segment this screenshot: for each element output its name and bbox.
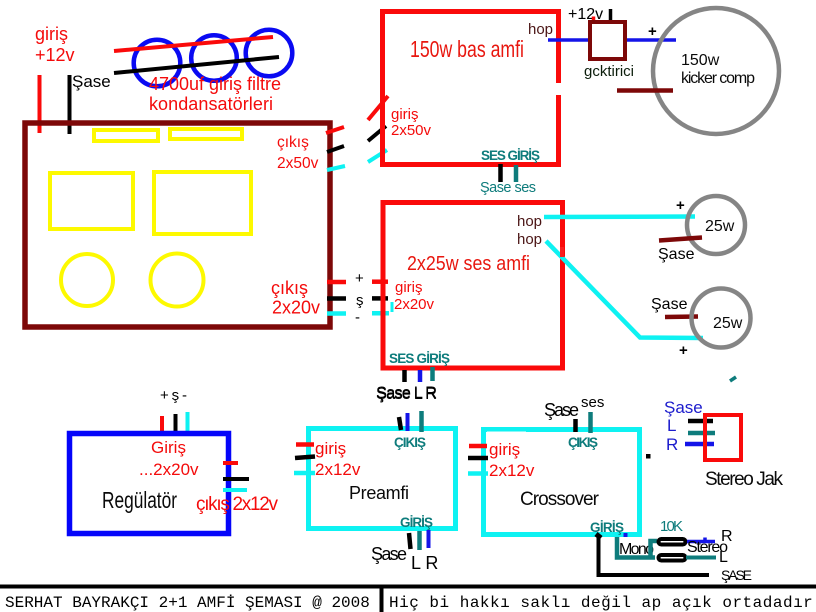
svg-text:150w bas amfi: 150w bas amfi <box>410 36 524 62</box>
svg-text:giriş: giriş <box>395 279 423 296</box>
wire reg in + (red) <box>160 416 164 435</box>
svg-text:Şase: Şase <box>664 398 703 417</box>
node blue dot <box>624 533 628 537</box>
svg-text:giriş: giriş <box>35 24 68 44</box>
wire teal tick below SPK3 <box>730 377 736 381</box>
svg-text:Şase ses: Şase ses <box>480 180 536 196</box>
wire ses şase stub (black) <box>498 164 503 182</box>
svg-text:2x25w ses amfi: 2x25w ses amfi <box>407 253 530 275</box>
gap in right edge of U1 <box>555 83 563 95</box>
svg-text:GİRİŞ: GİRİŞ <box>590 520 624 535</box>
svg-text:25w: 25w <box>705 218 735 235</box>
connector box Stereo Jak <box>705 415 741 460</box>
wire giriş tick (black) <box>596 534 601 538</box>
wire preamp in şase (black) <box>409 533 411 549</box>
svg-text:Giriş: Giriş <box>151 438 186 457</box>
wire R stub under U2 (teal) <box>430 367 435 381</box>
resistor R2 10K <box>659 555 686 561</box>
wire cyan tick by 2x20v <box>391 302 394 312</box>
wire R2 to L jack (teal) <box>686 556 716 560</box>
wire 20v- stub at PSU (cyan) <box>327 311 346 316</box>
transformer winding block 2 (yellow) <box>170 129 242 139</box>
speaker SPK2 25w <box>687 196 745 254</box>
toroid T1 (yellow) <box>61 254 113 306</box>
wire crossover out ses (teal) <box>588 412 593 433</box>
svg-text:ş: ş <box>356 292 364 309</box>
svg-text:R: R <box>721 528 733 545</box>
svg-text:Preamfi: Preamfi <box>349 483 409 503</box>
wire şase stub under U2 (black) <box>402 370 407 382</box>
wire 20v ş stub at ses amp (black) <box>372 296 388 301</box>
svg-text:SES GİRİŞ: SES GİRİŞ <box>481 148 540 163</box>
wire SPK2 şase (maroon) <box>659 238 702 241</box>
svg-text:Şase: Şase <box>651 296 688 313</box>
wire reg in ş (black) <box>174 414 178 436</box>
svg-text:kicker comp: kicker comp <box>681 70 755 87</box>
wire reg out + (red) <box>223 461 238 465</box>
wire capacitor + bus (red) <box>114 37 273 51</box>
footer divider <box>380 586 384 612</box>
wire reg in - (cyan) <box>186 412 190 435</box>
resistor R1 10K <box>659 539 686 545</box>
svg-text:2x20v: 2x20v <box>394 296 435 313</box>
transformer winding block 1 (yellow) <box>94 130 158 141</box>
preamp box Preamfi <box>309 429 456 529</box>
svg-text:Şase: Şase <box>658 246 695 263</box>
transformer core 2 (yellow) <box>154 172 251 234</box>
wire hop to gcktirici (blue) <box>548 38 676 42</box>
svg-text:ÇIKIŞ: ÇIKIŞ <box>394 435 426 450</box>
power supply box PSU <box>25 123 330 327</box>
svg-text:hop: hop <box>528 21 553 38</box>
wire 20v ş stub at PSU (black) <box>327 296 346 301</box>
svg-text:4700uf giriş filtre: 4700uf giriş filtre <box>149 74 281 94</box>
svg-text:giriş: giriş <box>391 106 419 123</box>
wire 50v+ stub at PSU (red) <box>326 127 344 133</box>
wire chassis input (black) <box>68 75 72 134</box>
svg-text:+ ş -: + ş - <box>160 387 187 404</box>
svg-text:10K: 10K <box>660 518 683 535</box>
svg-text:çıkış: çıkış <box>271 278 308 298</box>
svg-text:+12v: +12v <box>35 45 75 65</box>
speaker SPK3 25w <box>692 289 751 348</box>
svg-text:150w: 150w <box>681 52 720 69</box>
regulator box Regülatör <box>70 434 229 534</box>
wire preamp pwr - (cyan) <box>294 471 315 476</box>
wire jack R (blue) <box>685 442 714 447</box>
svg-text:gcktirici: gcktirici <box>584 63 634 80</box>
wire 50v- stub at amp (black) <box>368 126 386 141</box>
toroid T2 (yellow) <box>151 254 204 307</box>
crossover box <box>484 430 640 535</box>
svg-text:L: L <box>719 549 728 566</box>
wire blue tick <box>703 538 707 543</box>
svg-text:2x50v: 2x50v <box>391 122 432 139</box>
wire mono link to R1 (teal) <box>651 541 658 556</box>
speaker SPK1 150w kicker comp <box>653 8 779 134</box>
svg-text:Şase L R: Şase L R <box>376 385 437 403</box>
svg-text:25w: 25w <box>713 315 743 332</box>
capacitor C3 4700uF <box>246 30 293 77</box>
svg-text:giriş: giriş <box>489 440 520 459</box>
wire jack L (teal) <box>688 431 715 436</box>
wire R1 to R jack (blue) <box>687 540 715 544</box>
amplifier U2 2x25w ses amfi box <box>383 203 563 369</box>
relay box gcktirici <box>590 22 625 59</box>
wire 20v- stub at ses amp (cyan) <box>372 311 389 316</box>
svg-text:çıkış 2x12v: çıkış 2x12v <box>196 494 279 515</box>
wire preamp in L (teal) <box>417 531 422 550</box>
wire preamp out L (blue) <box>406 413 410 431</box>
wire reg out ş (black) <box>223 477 249 481</box>
wire 20v+ stub at ses amp (red) <box>372 279 388 284</box>
svg-text:ses: ses <box>581 394 604 411</box>
wire L stub under U2 (blue) <box>418 370 423 382</box>
svg-text:+: + <box>679 342 688 359</box>
wire preamp in R (blue) <box>427 530 431 548</box>
svg-text:2x20v: 2x20v <box>272 298 320 318</box>
capacitor C2 4700uF <box>191 35 237 81</box>
svg-text:L: L <box>667 416 676 435</box>
wire crossover out şase (black) <box>573 419 578 432</box>
transformer core 1 (yellow) <box>50 173 133 229</box>
svg-text:2x12v: 2x12v <box>489 461 535 480</box>
svg-text:...2x20v: ...2x20v <box>139 460 199 479</box>
wire mono feed down (teal) <box>617 537 655 558</box>
wire preamp out şase (black) <box>399 417 401 430</box>
svg-text:ÇIKIŞ: ÇIKIŞ <box>568 435 598 450</box>
svg-text:giriş: giriş <box>315 439 346 458</box>
wire preamp out R (teal) <box>419 411 424 432</box>
erased part of crossover top edge <box>487 432 526 438</box>
wire reg out - (cyan) <box>223 488 247 492</box>
wire 50v gnd stub at amp (cyan) <box>368 150 387 162</box>
svg-text:+: + <box>355 270 364 287</box>
svg-text:hop: hop <box>517 231 542 248</box>
svg-text:kondansatörleri: kondansatörleri <box>149 94 273 114</box>
svg-text:ŞASE: ŞASE <box>721 567 752 583</box>
svg-text:Crossover: Crossover <box>520 489 600 510</box>
svg-text:Hiç bi hakkı saklı değil ap aç: Hiç bi hakkı saklı değil ap açık ortadad… <box>389 594 813 612</box>
footer separator line <box>0 585 816 589</box>
wire red tick on U2 edge <box>560 247 564 257</box>
svg-text:2x50v: 2x50v <box>277 155 319 172</box>
wire crossover pwr ş (black) <box>468 456 488 461</box>
wire 50v gnd stub at PSU (cyan) <box>327 166 345 170</box>
svg-text:Şase: Şase <box>72 72 111 91</box>
wire hop R to speaker (cyan) <box>546 241 703 338</box>
svg-text:-: - <box>355 309 360 326</box>
svg-text:2x12v: 2x12v <box>315 460 361 479</box>
amplifier U1 150w bas amfi box <box>383 12 559 165</box>
svg-text:çıkış: çıkış <box>277 134 309 151</box>
svg-text:GİRİŞ: GİRİŞ <box>400 515 433 530</box>
svg-text:hop: hop <box>517 213 542 230</box>
svg-text:R: R <box>666 435 678 454</box>
wire +12v stub (red) <box>592 17 596 27</box>
svg-text:+: + <box>648 23 657 40</box>
svg-text:L R: L R <box>411 553 438 573</box>
svg-text:Şase: Şase <box>371 544 407 564</box>
wire crossover pwr - (cyan) <box>468 471 488 476</box>
wire +12v input (red) <box>38 75 42 133</box>
wire 50v+ stub at amp (red) <box>368 96 388 120</box>
svg-text:+: + <box>676 197 685 214</box>
wire preamp pwr + (red) <box>296 442 314 447</box>
wire SPK3 şase (maroon) <box>665 314 698 319</box>
wire crossover giriş down (black) <box>599 535 710 575</box>
wire preamp pwr ş (black) <box>295 457 315 459</box>
svg-text:Regülatör: Regülatör <box>102 487 177 513</box>
wire speaker - (maroon) <box>617 88 673 93</box>
svg-text:SES GİRİŞ: SES GİRİŞ <box>389 351 450 366</box>
wire +12v stub (black) <box>609 9 613 24</box>
svg-text:SERHAT BAYRAKÇI 2+1 AMFİ ŞEMAS: SERHAT BAYRAKÇI 2+1 AMFİ ŞEMASI @ 2008 <box>5 593 370 612</box>
wire 20v+ stub at PSU (red) <box>327 280 346 285</box>
wire capacitor - bus (black) <box>114 57 279 73</box>
wire jack şase (black) <box>688 419 713 424</box>
wire ses stub (teal) <box>514 165 519 182</box>
svg-text:Şase: Şase <box>544 400 579 420</box>
wire hop L to speaker (cyan) <box>544 214 695 219</box>
wire 50v- stub at PSU (black) <box>327 146 344 152</box>
capacitor C1 4700uF <box>134 40 181 87</box>
node black dot <box>646 454 651 459</box>
svg-text:Stereo Jak: Stereo Jak <box>705 469 784 490</box>
wire crossover pwr + (red) <box>469 444 487 449</box>
